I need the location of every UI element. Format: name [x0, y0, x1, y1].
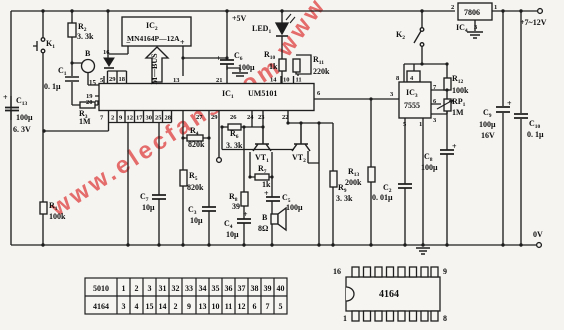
svg-text:7: 7	[100, 115, 104, 122]
svg-text:K2: K2	[396, 30, 405, 41]
svg-text:K1: K1	[46, 39, 55, 50]
svg-text:22: 22	[282, 114, 289, 121]
svg-text:24: 24	[247, 114, 254, 121]
svg-text:10μ: 10μ	[142, 203, 155, 212]
svg-text:200k: 200k	[345, 178, 362, 187]
svg-text:18: 18	[119, 76, 126, 83]
svg-text:37: 37	[238, 284, 246, 293]
svg-text:33: 33	[185, 284, 193, 293]
svg-text:6. 3V: 6. 3V	[13, 125, 31, 134]
svg-text:21: 21	[216, 77, 223, 84]
svg-text:B: B	[262, 213, 268, 222]
svg-text:29: 29	[211, 114, 218, 121]
svg-text:0V: 0V	[533, 230, 543, 239]
svg-text:IC4: IC4	[456, 23, 468, 34]
svg-text:UM5101: UM5101	[248, 89, 277, 98]
svg-text:9: 9	[119, 115, 123, 122]
svg-text:+: +	[264, 189, 269, 198]
svg-text:100μ: 100μ	[286, 203, 303, 212]
svg-text:10: 10	[283, 77, 290, 84]
svg-text:8: 8	[443, 314, 447, 323]
svg-text:16: 16	[333, 267, 341, 276]
svg-text:C9: C9	[483, 108, 492, 119]
svg-text:40: 40	[277, 284, 285, 293]
svg-text:2: 2	[174, 302, 178, 311]
svg-text:4: 4	[135, 302, 139, 311]
svg-text:36: 36	[225, 284, 233, 293]
svg-text:6: 6	[253, 302, 257, 311]
svg-text:2: 2	[135, 284, 139, 293]
svg-text:0. 1μ: 0. 1μ	[527, 130, 544, 139]
svg-text:C7: C7	[140, 192, 149, 203]
svg-text:13: 13	[173, 77, 180, 84]
svg-text:3. 3k: 3. 3k	[77, 32, 94, 41]
svg-text:VT1: VT1	[255, 153, 269, 164]
svg-text:32: 32	[172, 284, 180, 293]
svg-text:100k: 100k	[452, 86, 469, 95]
svg-text:3: 3	[433, 117, 437, 124]
svg-text:R11: R11	[313, 55, 324, 66]
svg-text:220k: 220k	[313, 67, 330, 76]
svg-text:100μ: 100μ	[479, 120, 496, 129]
svg-text:28: 28	[165, 115, 172, 122]
svg-text:35: 35	[212, 284, 220, 293]
svg-text:+: +	[452, 142, 457, 151]
svg-text:100μ: 100μ	[16, 113, 33, 122]
svg-text:15: 15	[146, 302, 154, 311]
svg-text:9: 9	[443, 267, 447, 276]
svg-text:1: 1	[494, 4, 497, 11]
svg-text:10: 10	[212, 302, 220, 311]
svg-text:1: 1	[419, 121, 422, 128]
svg-text:30: 30	[146, 115, 153, 122]
svg-text:C4: C4	[224, 219, 233, 230]
svg-text:14: 14	[270, 77, 277, 84]
svg-text:7806: 7806	[464, 8, 480, 17]
svg-text:R10: R10	[264, 50, 276, 61]
svg-text:12: 12	[127, 115, 134, 122]
svg-text:6: 6	[317, 90, 321, 97]
svg-text:0. 1μ: 0. 1μ	[44, 82, 61, 91]
svg-text:8Ω: 8Ω	[258, 224, 269, 233]
svg-text:100k: 100k	[49, 212, 66, 221]
svg-text:34: 34	[199, 284, 207, 293]
svg-text:820k: 820k	[188, 140, 205, 149]
svg-text:8: 8	[396, 75, 400, 82]
svg-text:10μ: 10μ	[226, 230, 239, 239]
svg-text:820k: 820k	[187, 183, 204, 192]
svg-text:100μ: 100μ	[421, 163, 438, 172]
svg-text:5: 5	[279, 302, 283, 311]
svg-text:1M: 1M	[79, 117, 91, 126]
svg-text:C3: C3	[188, 205, 197, 216]
svg-text:1: 1	[343, 314, 347, 323]
svg-text:R13: R13	[348, 167, 360, 178]
svg-text:C8: C8	[424, 152, 433, 163]
svg-text:11: 11	[225, 302, 233, 311]
svg-text:C6: C6	[234, 51, 243, 62]
svg-text:2: 2	[451, 4, 454, 11]
svg-text:B: B	[85, 49, 91, 58]
svg-text:16: 16	[103, 49, 110, 56]
svg-text:1k: 1k	[269, 62, 278, 71]
svg-text:16V: 16V	[481, 131, 495, 140]
svg-text:+5V: +5V	[232, 14, 247, 23]
svg-text:7555: 7555	[404, 101, 420, 110]
svg-text:+: +	[180, 38, 185, 47]
svg-text:12: 12	[238, 302, 246, 311]
svg-text:3: 3	[148, 284, 152, 293]
svg-text:C1: C1	[58, 66, 67, 77]
svg-text:3: 3	[390, 91, 394, 98]
svg-text:VT2: VT2	[292, 153, 306, 164]
svg-text:39: 39	[232, 202, 240, 211]
svg-text:1: 1	[122, 284, 126, 293]
svg-text:M—BUS: M—BUS	[150, 53, 159, 85]
svg-text:100μ: 100μ	[238, 63, 255, 72]
svg-text:10μ: 10μ	[190, 216, 203, 225]
svg-text:4164: 4164	[379, 289, 399, 300]
svg-text:+: +	[3, 93, 8, 102]
svg-text:LED1: LED1	[252, 24, 271, 35]
svg-text:C10: C10	[529, 119, 541, 130]
svg-text:9: 9	[187, 302, 191, 311]
svg-text:R1: R1	[49, 201, 58, 212]
svg-text:1k: 1k	[262, 180, 271, 189]
svg-text:4164: 4164	[93, 302, 109, 311]
svg-text:R5: R5	[189, 171, 198, 182]
svg-text:15: 15	[89, 79, 97, 87]
svg-text:3: 3	[474, 24, 478, 31]
svg-text:39: 39	[264, 284, 272, 293]
svg-text:29: 29	[109, 76, 116, 83]
svg-text:31: 31	[159, 284, 167, 293]
svg-text:+: +	[507, 99, 512, 108]
svg-text:3. 3k: 3. 3k	[226, 141, 243, 150]
svg-text:+: +	[243, 210, 248, 219]
svg-text:+7~12V: +7~12V	[520, 18, 547, 27]
svg-text:38: 38	[251, 284, 259, 293]
svg-text:13: 13	[199, 302, 207, 311]
svg-text:17: 17	[136, 115, 143, 122]
svg-text:14: 14	[159, 302, 167, 311]
svg-text:0. 01μ: 0. 01μ	[372, 193, 393, 202]
svg-text:1M: 1M	[452, 108, 464, 117]
svg-text:RP1: RP1	[452, 97, 466, 108]
svg-text:−: −	[126, 38, 131, 47]
svg-text:20: 20	[86, 99, 93, 106]
svg-text:11: 11	[296, 77, 302, 84]
svg-text:2: 2	[111, 115, 114, 122]
svg-text:+: +	[216, 54, 221, 63]
svg-text:3. 3k: 3. 3k	[336, 194, 353, 203]
svg-text:5010: 5010	[93, 284, 109, 293]
svg-text:5: 5	[403, 121, 407, 128]
svg-text:C13: C13	[16, 96, 28, 107]
svg-text:R12: R12	[452, 74, 464, 85]
svg-text:MN4164P—12A: MN4164P—12A	[127, 34, 180, 43]
svg-text:23: 23	[258, 114, 265, 121]
svg-text:7: 7	[266, 302, 270, 311]
svg-text:3: 3	[122, 302, 126, 311]
svg-text:25: 25	[155, 115, 162, 122]
svg-text:27: 27	[196, 114, 203, 121]
svg-text:26: 26	[230, 114, 237, 121]
